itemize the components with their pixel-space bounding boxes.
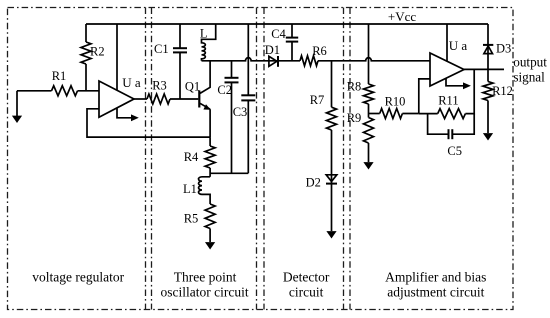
wire: D1 cathode to R6 xyxy=(278,60,300,62)
resistor R1 xyxy=(17,90,52,92)
svg-text:R6: R6 xyxy=(312,44,327,58)
resistor R11 (feedback) xyxy=(419,113,438,115)
svg-text:R12: R12 xyxy=(492,84,513,98)
svg-text:R3: R3 xyxy=(152,78,167,92)
ground (below D2) xyxy=(326,231,336,238)
wire: C2/C3 bottom bus to R4 node xyxy=(210,172,248,174)
svg-text:circuit: circuit xyxy=(289,285,324,300)
resistor R12 xyxy=(487,69,489,81)
svg-text:C2: C2 xyxy=(217,83,232,97)
svg-text:output: output xyxy=(513,55,547,70)
svg-text:R8: R8 xyxy=(347,79,362,93)
svg-text:D3: D3 xyxy=(496,41,511,55)
svg-text:oscillator circuit: oscillator circuit xyxy=(161,285,249,300)
svg-text:R11: R11 xyxy=(438,93,458,107)
ground (below R12) xyxy=(483,133,493,140)
ground (below R5) xyxy=(205,242,215,249)
resistor R6 xyxy=(300,56,318,66)
svg-text:R7: R7 xyxy=(310,93,325,107)
svg-text:C5: C5 xyxy=(447,144,462,158)
svg-text:U a: U a xyxy=(122,75,141,90)
wire: U a output line xyxy=(464,68,504,70)
wire: D2 to ground xyxy=(331,184,333,231)
svg-text:R4: R4 xyxy=(184,150,199,164)
svg-text:C1: C1 xyxy=(154,42,169,56)
svg-text:+Vcc: +Vcc xyxy=(388,9,416,24)
svg-text:signal: signal xyxy=(513,69,545,84)
wire: +Vcc top rail xyxy=(86,23,488,25)
transistor Q1 xyxy=(198,91,200,108)
svg-text:Detector: Detector xyxy=(283,269,330,284)
svg-text:D1: D1 xyxy=(265,43,280,57)
svg-text:R1: R1 xyxy=(52,69,67,83)
ground (left, at R1) xyxy=(16,91,18,116)
capacitor C1 xyxy=(179,24,181,48)
wire: R6 to bias node (hop over R8 line) xyxy=(318,58,430,61)
op-amp U a (voltage regulator) xyxy=(99,81,134,117)
svg-text:Three point: Three point xyxy=(174,269,237,284)
svg-text:R9: R9 xyxy=(347,111,362,125)
capacitor C5 (parallel with R11) xyxy=(428,114,449,135)
output direction arrow of U a xyxy=(117,108,132,118)
wire: R10/R11 node to U a inverting input xyxy=(419,79,430,114)
svg-text:R2: R2 xyxy=(90,45,105,59)
svg-text:R10: R10 xyxy=(385,95,406,109)
svg-text:C4: C4 xyxy=(271,27,286,41)
svg-text:adjustment circuit: adjustment circuit xyxy=(387,285,484,300)
wire: feedback from U a inverting input to Q1 emitter node xyxy=(87,109,210,137)
wire: power stub from rail to U a xyxy=(446,24,448,61)
resistor R3 xyxy=(134,98,147,100)
diode D2 xyxy=(326,175,337,182)
svg-text:R5: R5 xyxy=(184,212,199,226)
resistor R7 xyxy=(331,61,333,107)
resistor R5 xyxy=(205,204,215,229)
svg-text:voltage regulator: voltage regulator xyxy=(32,269,124,284)
inductor L1 xyxy=(199,177,211,204)
diode D1 xyxy=(269,56,277,66)
svg-text:D2: D2 xyxy=(306,175,321,189)
ground (below R9) xyxy=(363,162,373,169)
output direction arrow of U a xyxy=(446,78,464,86)
wire: LC tank line (with hop over C3) xyxy=(202,58,279,61)
resistor R10 xyxy=(369,113,380,115)
svg-text:U a: U a xyxy=(449,38,468,53)
op-amp U a (amplifier) xyxy=(430,53,464,86)
inductor L xyxy=(202,24,216,61)
capacitor C4 (parallel from rail) xyxy=(291,24,293,38)
capacitor C2 xyxy=(231,61,233,78)
resistor R9 xyxy=(364,118,374,144)
svg-text:L: L xyxy=(200,27,208,41)
diode D3 (clamp to rail) xyxy=(487,24,489,69)
svg-text:L1: L1 xyxy=(183,182,197,196)
svg-text:C3: C3 xyxy=(233,105,248,119)
capacitor C3 (from +Vcc rail, tank wire hops over) xyxy=(247,24,249,95)
resistor R2 xyxy=(85,24,87,42)
wire: power stub from rail to U a xyxy=(116,24,118,90)
svg-text:Amplifier and bias: Amplifier and bias xyxy=(385,269,486,284)
svg-text:Q1: Q1 xyxy=(185,79,200,93)
resistor R4 xyxy=(209,137,211,146)
resistor R8 (bias from rail) xyxy=(368,24,370,84)
